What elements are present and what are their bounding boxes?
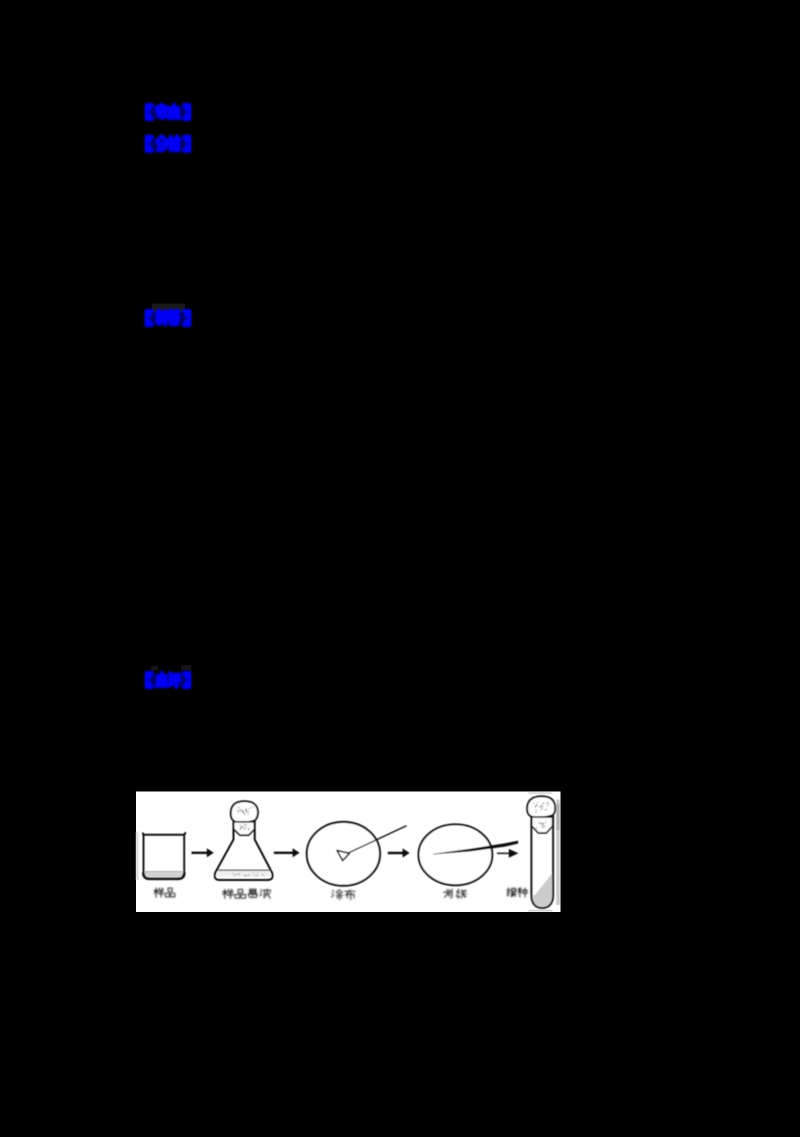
spreader handle bbox=[349, 826, 407, 853]
arrow sample to flask bbox=[192, 848, 214, 857]
test tube gray agar slant bbox=[533, 873, 552, 897]
petri dish: spreading (tubu) bbox=[307, 822, 380, 886]
heading kaodian (exam points) bbox=[145, 104, 191, 119]
flask body bbox=[215, 820, 273, 880]
inoculation needle thin part bbox=[433, 841, 518, 854]
flask plug speckles bbox=[237, 806, 254, 815]
tube cotton below plug bbox=[532, 817, 553, 833]
test tube outline bbox=[531, 808, 553, 908]
flask cotton plug bbox=[231, 801, 258, 823]
arrow streak to tube bbox=[497, 849, 519, 858]
beaker rim line bbox=[143, 834, 185, 836]
heading fenxi (analysis) bbox=[145, 136, 191, 151]
tube plug speckles bbox=[533, 801, 549, 812]
label tubu (spread) bbox=[332, 890, 356, 900]
label huaxian (streak) bbox=[444, 889, 467, 898]
white figure panel bbox=[136, 792, 561, 913]
petri dish: streaking (huaxian) bbox=[419, 824, 493, 885]
flask neck speckles bbox=[240, 824, 250, 830]
heading jieda (answer) bbox=[145, 310, 191, 325]
arrow flask to spread plate bbox=[274, 848, 300, 857]
label yangpin (sample) bbox=[154, 888, 175, 897]
faint artifact above jieda bbox=[152, 304, 185, 313]
flask liquid line bbox=[216, 870, 272, 876]
tube cotton plug bbox=[527, 796, 555, 817]
arrow spread to streak plate bbox=[388, 848, 410, 857]
panel right gray strip bbox=[556, 800, 559, 906]
panel left gray strip bbox=[136, 832, 139, 880]
beaker liquid band bbox=[145, 872, 183, 878]
spreader bent tip triangle bbox=[337, 850, 350, 860]
label yangpin xuanye (sample suspension) bbox=[223, 889, 271, 898]
tube shadow line bbox=[528, 910, 553, 912]
heading dianping (comment) bbox=[145, 672, 191, 687]
flask neck cotton (speckled wedge) bbox=[234, 822, 255, 835]
small gray mark at panel top bbox=[528, 792, 552, 794]
beaker outline bbox=[143, 832, 186, 879]
faint artifact above dianping bbox=[151, 666, 158, 671]
flask liquid speckles bbox=[232, 873, 264, 877]
beaker bottom thick edge bbox=[143, 873, 184, 879]
label jiezhong (inoculate) bbox=[507, 888, 527, 897]
tube cotton speckles bbox=[536, 822, 546, 829]
